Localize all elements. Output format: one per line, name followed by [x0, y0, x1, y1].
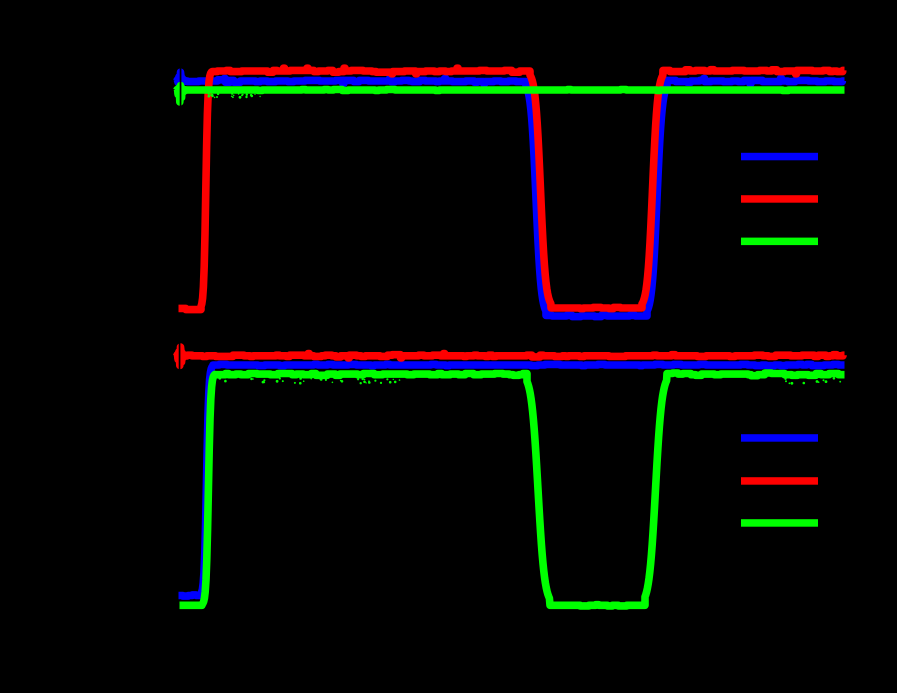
bottom plot: green noise speckle under green trace [218, 377, 841, 385]
top plot: black cursor line over start transient [180, 62, 182, 112]
top plot: red trace (red channel response) [179, 68, 845, 309]
bottom plot: blue trace (blue channel response) [179, 364, 845, 596]
top legend: red sample line [741, 195, 818, 203]
bottom legend: green sample line [741, 519, 818, 527]
top legend: green sample line [741, 238, 818, 246]
top legend: blue sample line [741, 153, 818, 161]
bottom plot: black cursor line over start transient [179, 343, 181, 373]
top plot: green trace (green channel response) [176, 86, 845, 102]
top plot: blue trace (blue channel response) [176, 72, 845, 316]
bottom legend: blue sample line [741, 434, 818, 442]
bottom plot: green trace (green channel response) [180, 373, 845, 606]
top plot: green noise speckle under green trace [208, 93, 261, 99]
bottom plot: red trace (red channel response) [176, 347, 845, 366]
bottom legend: red sample line [741, 477, 818, 485]
